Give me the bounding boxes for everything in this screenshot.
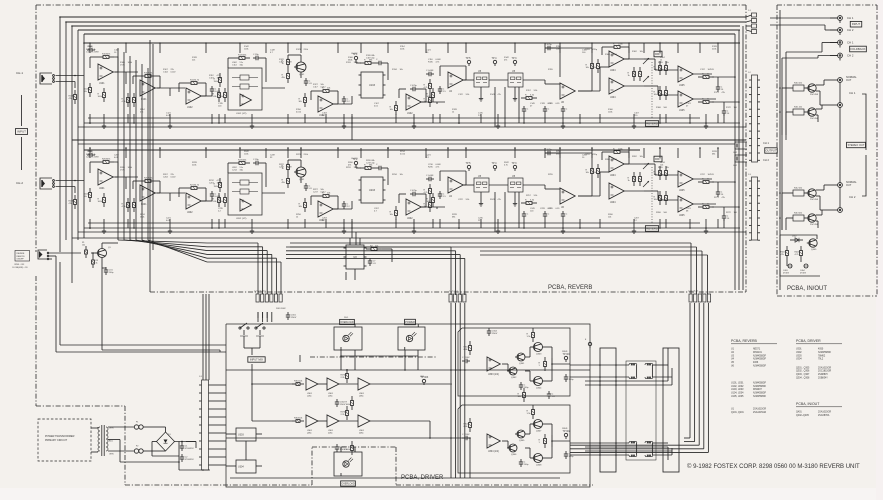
label U202 xyxy=(236,218,247,220)
svg-text:4050: 4050 xyxy=(818,349,824,351)
resistor R225 xyxy=(282,174,290,188)
resistor R413 xyxy=(786,213,806,222)
svg-text:3.3k: 3.3k xyxy=(534,195,538,197)
tank coupling transformer ch1 winding right xyxy=(645,363,653,365)
resistor R mix2 xyxy=(660,166,668,180)
capacitor C312 xyxy=(462,434,470,440)
svg-text:2SC1815GR: 2SC1815GR xyxy=(818,371,832,373)
svg-text:J-3: J-3 xyxy=(748,174,751,176)
svg-text:10k: 10k xyxy=(556,48,559,50)
resistor R114 xyxy=(213,88,221,102)
transistor Q305 xyxy=(515,430,525,442)
resistor R3112 xyxy=(527,328,535,342)
svg-text:2SC458: 2SC458 xyxy=(810,199,819,201)
op-amp U105 (1/2) xyxy=(678,66,693,87)
svg-text:Q307: Q307 xyxy=(536,431,542,433)
svg-text:MN3101: MN3101 xyxy=(753,352,763,354)
bus wire ground xyxy=(72,25,740,27)
resistor R109 xyxy=(122,93,130,107)
svg-text:CLOCK: CLOCK xyxy=(351,158,358,160)
capacitor C110 xyxy=(426,70,434,76)
panel input jack CH 2 #2 xyxy=(830,28,842,35)
svg-text:CH 1: CH 1 xyxy=(849,91,856,95)
boxed label FOLDBACK xyxy=(850,46,867,52)
transistor Q301 xyxy=(515,353,525,365)
svg-text:(6/6): (6/6) xyxy=(359,433,364,435)
boxed label OVERLOAD (bottom) xyxy=(341,481,356,486)
wire feedback stage4 xyxy=(311,91,338,104)
svg-text:3.3k: 3.3k xyxy=(466,199,470,201)
switch S301 input mix xyxy=(239,323,249,336)
svg-text:100k: 100k xyxy=(88,153,92,155)
op-amp U204 (1/2) xyxy=(609,156,624,177)
label PCBA REVERB xyxy=(548,285,592,291)
buffer U301 (6/6) xyxy=(358,415,370,435)
svg-text:Q304: Q304 xyxy=(536,388,542,390)
transistor Q201 xyxy=(294,167,306,181)
wire remote collector up xyxy=(102,243,118,249)
capacitor C115 fb xyxy=(410,85,418,91)
svg-text:TP 5: TP 5 xyxy=(466,162,472,165)
boxed label INPUT xyxy=(15,129,27,135)
row2 rail junction dots xyxy=(89,147,707,229)
svg-text:TP 4: TP 4 xyxy=(492,57,498,60)
resistor R303 xyxy=(346,396,354,410)
svg-text:PCBA, DRIVER: PCBA, DRIVER xyxy=(796,339,821,343)
panel inner rail wire xyxy=(779,10,781,290)
regulator U305 xyxy=(236,428,256,441)
label O.L. xyxy=(344,449,348,451)
resistor R228 feedback xyxy=(318,192,334,197)
ic U8 mixer xyxy=(344,245,367,269)
resistor R232 xyxy=(390,206,398,220)
svg-text:47k: 47k xyxy=(498,94,501,96)
svg-text:U303 (1/2): U303 (1/2) xyxy=(488,374,499,376)
resistor R3 remote xyxy=(92,256,98,268)
svg-text:U102 (1/2): U102 (1/2) xyxy=(236,113,247,115)
svg-text:U205: U205 xyxy=(679,215,685,217)
resistor R133 xyxy=(427,88,435,102)
capacitor C206 xyxy=(210,191,221,199)
wire mix switch feeds xyxy=(258,312,272,322)
row1 bottom rail wire 3 xyxy=(78,126,746,128)
wire U201 out xyxy=(113,177,138,189)
wire U4 fb2 xyxy=(440,171,466,185)
capacitor C215 fb xyxy=(410,190,418,196)
svg-text:U101: U101 xyxy=(99,83,105,85)
svg-text:47k: 47k xyxy=(504,59,507,61)
resistor R108 feedback xyxy=(140,72,156,77)
svg-text:CH 2: CH 2 xyxy=(763,158,769,162)
wire U404 outs xyxy=(624,59,644,86)
mid rail wire 2 xyxy=(78,143,735,145)
op-amp U4 (2/2) xyxy=(448,177,463,198)
wire U6 fb xyxy=(545,153,592,196)
bundle wires to J2 drop xyxy=(286,247,465,295)
svg-text:(4/6): (4/6) xyxy=(307,433,312,435)
analog switch U5 b xyxy=(508,70,523,87)
driver board rail wire 3 xyxy=(230,477,560,479)
svg-text:PCBA, REVERB: PCBA, REVERB xyxy=(731,339,758,343)
connector J403 body xyxy=(749,177,760,240)
bus wire +15V xyxy=(60,16,746,18)
resistor R224 xyxy=(282,160,290,174)
pcba in/out border left (dash-dot) xyxy=(776,5,778,296)
op-amp inside compander U102 xyxy=(240,94,251,106)
wire J3 feed top xyxy=(203,294,209,380)
wire ch1 return runs xyxy=(652,365,672,377)
row1 annotation speckle labels xyxy=(88,46,718,117)
resistor R304 xyxy=(292,417,304,422)
ground under switches xyxy=(479,201,517,206)
svg-text:C 0.068: C 0.068 xyxy=(426,175,434,177)
resistor R3120 xyxy=(464,418,472,432)
resistor R3123 xyxy=(539,434,547,448)
buffer U301 (5/6) xyxy=(327,415,339,435)
svg-text:220k: 220k xyxy=(400,48,404,50)
lower bus wire A xyxy=(72,237,600,239)
svg-text:Q303 , Q307: Q303 , Q307 xyxy=(796,374,810,376)
diode D403 xyxy=(783,264,792,275)
label NORMAL OUT ch1 xyxy=(846,76,857,82)
capacitor C114 xyxy=(253,54,261,60)
dash-dot chassis line at indicators xyxy=(310,356,436,358)
pcba reverb / in-out divider (dash-dot) xyxy=(745,5,747,292)
svg-text:47k: 47k xyxy=(722,197,725,199)
resistor R410 xyxy=(782,83,807,92)
svg-text:1/50V: 1/50V xyxy=(291,317,297,319)
transistor Q1 remote xyxy=(96,247,112,258)
reverb board frame wire left inner xyxy=(83,34,85,238)
svg-text:U103: U103 xyxy=(369,84,376,87)
capacitor C over BBD xyxy=(376,59,384,65)
label power transformer xyxy=(45,435,75,442)
resistor R235 xyxy=(424,184,432,198)
row2 ground symbols xyxy=(102,229,708,234)
wire to connector xyxy=(712,77,739,108)
capacitor C2 psu xyxy=(180,454,195,462)
svg-text:2SA1015GR: 2SA1015GR xyxy=(753,407,766,410)
svg-text:PCBA, REVERB: PCBA, REVERB xyxy=(548,285,592,291)
svg-text:J-1: J-1 xyxy=(748,10,751,12)
reverb tank 1 body xyxy=(600,348,616,472)
capacitor C3113 xyxy=(519,382,529,390)
resistor R118 xyxy=(214,73,222,87)
resistor R120 over BBD xyxy=(360,59,376,64)
resistor R218 xyxy=(214,178,222,192)
resistor R103 feedback xyxy=(98,53,114,58)
svg-text:10/16V: 10/16V xyxy=(708,174,715,176)
transistor Q404 buffer xyxy=(806,214,819,226)
svg-text:U105: U105 xyxy=(679,110,685,112)
svg-text:47k: 47k xyxy=(348,164,351,166)
svg-text:CLOCK: CLOCK xyxy=(351,53,358,55)
resistor bank U404 xyxy=(628,67,642,81)
svg-text:TP 301: TP 301 xyxy=(563,353,571,356)
op-amp U102 (2/2) xyxy=(318,96,333,117)
wire bbd loop xyxy=(356,165,388,185)
svg-text:OUT: OUT xyxy=(846,184,852,187)
send amp block 1 outline xyxy=(458,328,570,396)
wire feedback stage3 xyxy=(179,83,206,96)
wire compander out xyxy=(262,192,285,194)
ground under switches xyxy=(479,96,517,101)
op-amp U101 (1/2) xyxy=(98,64,113,85)
svg-text:BLU: BLU xyxy=(109,441,113,443)
label DS-1 xyxy=(344,317,348,319)
capacitor C301 mix xyxy=(286,312,297,320)
svg-text:2SA1015GR: 2SA1015GR xyxy=(818,411,831,414)
svg-text:GND: GND xyxy=(420,376,425,378)
svg-text:C 470p: C 470p xyxy=(545,44,553,46)
label ORN top xyxy=(109,428,114,430)
label CH 1 (stereo) xyxy=(849,91,856,95)
boxed label REVERB REMOTE ON/OFF xyxy=(15,251,30,262)
wire buffer row A xyxy=(318,383,452,385)
capacitor C210 xyxy=(426,175,434,181)
resistor R101 xyxy=(69,90,77,104)
resistor R124 xyxy=(282,55,290,69)
label remote note xyxy=(12,264,28,269)
wire stereo ch2 link xyxy=(862,155,866,196)
connector pin number labels J3 xyxy=(199,376,203,378)
connector pin labels J403 xyxy=(748,174,751,176)
wire U205 out xyxy=(693,179,716,204)
svg-text:CH-1: CH-1 xyxy=(16,71,23,75)
transistor Q302 xyxy=(507,367,517,379)
svg-text:STEREO OUT: STEREO OUT xyxy=(848,143,865,147)
svg-text:10k: 10k xyxy=(400,69,403,71)
left rail wire xyxy=(59,17,61,252)
wire switch link xyxy=(489,184,508,186)
wire U204 fb xyxy=(602,152,629,164)
resistor R3110 xyxy=(464,341,472,355)
wire U204 outs xyxy=(624,164,644,191)
capacitor C101 xyxy=(87,46,95,52)
svg-text:TP 5: TP 5 xyxy=(466,57,472,60)
svg-text:Q301 , Q305: Q301 , Q305 xyxy=(796,367,810,369)
wire J3 to board xyxy=(211,385,226,465)
svg-text:U103, U203: U103, U203 xyxy=(731,389,744,391)
resistor R3122 xyxy=(527,405,535,419)
resistor R302 pullup xyxy=(341,369,349,383)
svg-text:OVERLOAD: OVERLOAD xyxy=(341,482,355,485)
svg-text:47/16V: 47/16V xyxy=(800,273,807,275)
svg-text:10k: 10k xyxy=(666,62,669,64)
svg-text:C 1/50V: C 1/50V xyxy=(462,434,470,436)
resistor R416 xyxy=(795,246,803,260)
resistor R120 over compander xyxy=(234,54,250,59)
test point TP2 xyxy=(353,158,359,167)
test point TP303 xyxy=(420,376,429,385)
svg-text:U404: U404 xyxy=(610,70,616,72)
svg-text:2SC458: 2SC458 xyxy=(810,94,819,96)
boxed label POWER xyxy=(405,319,416,324)
svg-text:Q304 , Q308: Q304 , Q308 xyxy=(796,378,810,380)
transistor Q405 muting xyxy=(807,239,817,251)
svg-text:Q402~Q405: Q402~Q405 xyxy=(796,415,809,417)
svg-text:INPUT: INPUT xyxy=(17,130,26,134)
wire muting cluster xyxy=(780,235,820,276)
connector J2 xyxy=(449,294,466,302)
level pot wiper row2 a xyxy=(643,163,649,169)
chassis border notch up at O.L. indicator (dash-dot) xyxy=(312,447,396,485)
svg-text:Q305: Q305 xyxy=(519,440,525,442)
label J2 pins xyxy=(449,291,458,293)
wire q401 xyxy=(782,80,828,230)
svg-text:68k: 68k xyxy=(556,153,559,155)
svg-text:U304: U304 xyxy=(796,359,802,361)
wire ch2 winding return xyxy=(651,443,653,455)
svg-text:C 470p: C 470p xyxy=(410,85,418,87)
svg-text:2SA1015GR: 2SA1015GR xyxy=(753,411,766,414)
capacitor C31 remote xyxy=(104,267,114,275)
parts list PCBA DRIVER xyxy=(796,339,842,380)
svg-text:10k: 10k xyxy=(82,244,85,246)
svg-text:U105, U205: U105, U205 xyxy=(731,396,744,398)
resistor R136 xyxy=(424,93,432,107)
label PCBA IN/OUT xyxy=(787,286,827,292)
svg-text:U304 (1/2): U304 (1/2) xyxy=(488,451,499,453)
svg-text:Q306: Q306 xyxy=(511,454,517,456)
label CH 2 (stereo) xyxy=(849,195,856,199)
svg-text:Q101: Q101 xyxy=(299,74,305,76)
capacitor C230 xyxy=(561,211,568,219)
level pot wiper row2 b xyxy=(643,181,649,187)
svg-text:47/6V: 47/6V xyxy=(94,157,100,159)
resistor R415 xyxy=(781,246,789,260)
row1 ground symbols xyxy=(102,124,708,129)
wire remote to driver xyxy=(56,345,226,352)
wire driver right rails xyxy=(469,438,471,478)
svg-text:0.01k: 0.01k xyxy=(296,111,301,113)
svg-text:J-5 1 2 3 4 5: J-5 1 2 3 4 5 xyxy=(688,291,698,293)
bus wire -15V xyxy=(66,21,746,23)
resistor R3113 xyxy=(539,357,547,371)
panel rail wires from buses xyxy=(735,26,743,290)
wire U6 fb xyxy=(545,48,592,91)
bundle wire left vertical 1 xyxy=(117,48,119,240)
wire remote jack to q1 xyxy=(49,252,98,256)
svg-text:NJM4558DF: NJM4558DF xyxy=(818,352,832,354)
resistor R213 feedback xyxy=(186,184,202,189)
boxed label DRY row2 xyxy=(654,156,662,162)
svg-text:© 9-1982 FOSTEX CORP. 8298: © 9-1982 FOSTEX CORP. 8298 0560 00 M-318… xyxy=(687,463,860,470)
tank coupling transformer ch2 winding left xyxy=(629,441,637,443)
bridge rectifier D1 xyxy=(157,432,175,451)
transformer T1 secondary winding xyxy=(106,427,108,451)
tank coupling transformer ch2 winding right xyxy=(645,441,653,443)
resistor R301 xyxy=(292,380,304,385)
driver board top rail wire xyxy=(226,369,590,371)
panel jack stereo ch1 xyxy=(828,103,842,108)
svg-text:U303: U303 xyxy=(796,355,802,357)
resistor R2 xyxy=(366,245,382,250)
pot gang dotted link xyxy=(651,167,653,223)
wire stage5 out xyxy=(421,102,445,104)
svg-text:U104, U204: U104, U204 xyxy=(731,393,744,395)
wire primary to box xyxy=(91,427,98,452)
svg-text:NJM4558DF: NJM4558DF xyxy=(753,393,767,395)
resistor R128 feedback xyxy=(318,87,334,92)
clock line drops row2 xyxy=(352,192,519,238)
tank transducer housing xyxy=(626,361,656,460)
svg-text:2SB834Y: 2SB834Y xyxy=(818,378,828,380)
bundle fan diagonals xyxy=(118,240,207,262)
transistor Q403 buffer xyxy=(806,189,819,201)
resistor R204 xyxy=(84,188,92,202)
capacitor C3129 xyxy=(564,451,574,459)
label BLU mid xyxy=(109,441,113,443)
svg-text:1k: 1k xyxy=(296,216,298,218)
wire tank group ch2 ladder xyxy=(585,446,672,460)
wire mix in xyxy=(644,164,678,200)
svg-text:220k: 220k xyxy=(304,154,308,156)
capacitor C218 xyxy=(342,201,351,209)
pcba in/out border top (dash-dot) xyxy=(777,4,877,6)
capacitor C3123 xyxy=(519,459,529,467)
svg-text:(3/6): (3/6) xyxy=(359,396,364,398)
op-amp U404 (2/2) xyxy=(609,78,624,99)
resistor R out1 xyxy=(698,73,714,78)
row2 bottom rail wire xyxy=(88,222,700,224)
svg-text:REVERB: REVERB xyxy=(646,227,658,231)
svg-text:(1/6): (1/6) xyxy=(307,396,312,398)
wire stage3 out xyxy=(201,199,212,201)
test point TP1 xyxy=(353,53,359,62)
svg-text:U404: U404 xyxy=(610,97,616,99)
bundle wires to J5 xyxy=(290,243,708,294)
capacitor C311 xyxy=(462,357,470,363)
mid rail wire xyxy=(72,139,746,141)
svg-text:U202: U202 xyxy=(187,212,193,214)
svg-text:NE571: NE571 xyxy=(753,349,761,351)
svg-text:CH 2: CH 2 xyxy=(847,54,854,58)
svg-text:D301 D302: D301 D302 xyxy=(276,308,286,310)
resistor R259 xyxy=(586,164,594,178)
svg-text:1k: 1k xyxy=(660,59,662,61)
wire indicators to board xyxy=(340,350,418,370)
wire mix down xyxy=(244,336,260,355)
svg-text:U205: U205 xyxy=(679,190,685,192)
bundle wire left vertical 6 xyxy=(147,68,149,240)
wire feedback U101 xyxy=(90,57,118,72)
row2 rail stub wires top xyxy=(90,148,718,158)
wire send amp 2 output xyxy=(551,440,570,442)
wire panel feeds xyxy=(746,15,752,32)
svg-text:ORN: ORN xyxy=(109,454,114,456)
pot gang dotted link xyxy=(651,62,653,118)
op-amp U201 (2/2) xyxy=(140,185,155,206)
svg-text:U201: U201 xyxy=(99,188,105,190)
label PCBA DRIVER xyxy=(401,475,444,481)
svg-text:100k: 100k xyxy=(608,111,612,113)
regulator U306 xyxy=(236,460,256,473)
capacitor C305 xyxy=(547,391,556,399)
svg-text:U203: U203 xyxy=(369,189,376,192)
svg-text:J-4 1 2 3 4 5 6: J-4 1 2 3 4 5 6 xyxy=(254,291,266,293)
svg-text:47/6V: 47/6V xyxy=(94,52,100,54)
op-amp U101 (2/2) xyxy=(140,80,155,101)
resistor R mix2 xyxy=(660,61,668,75)
svg-text:U204: U204 xyxy=(610,175,616,177)
wire J5 drop bundle xyxy=(570,303,708,452)
transistor Q402 buffer xyxy=(806,108,819,120)
svg-text:0.022: 0.022 xyxy=(171,72,177,74)
svg-text:220k: 220k xyxy=(712,48,716,50)
row1 bottom rail wire xyxy=(88,117,700,119)
capacitor C out2 xyxy=(722,108,730,116)
